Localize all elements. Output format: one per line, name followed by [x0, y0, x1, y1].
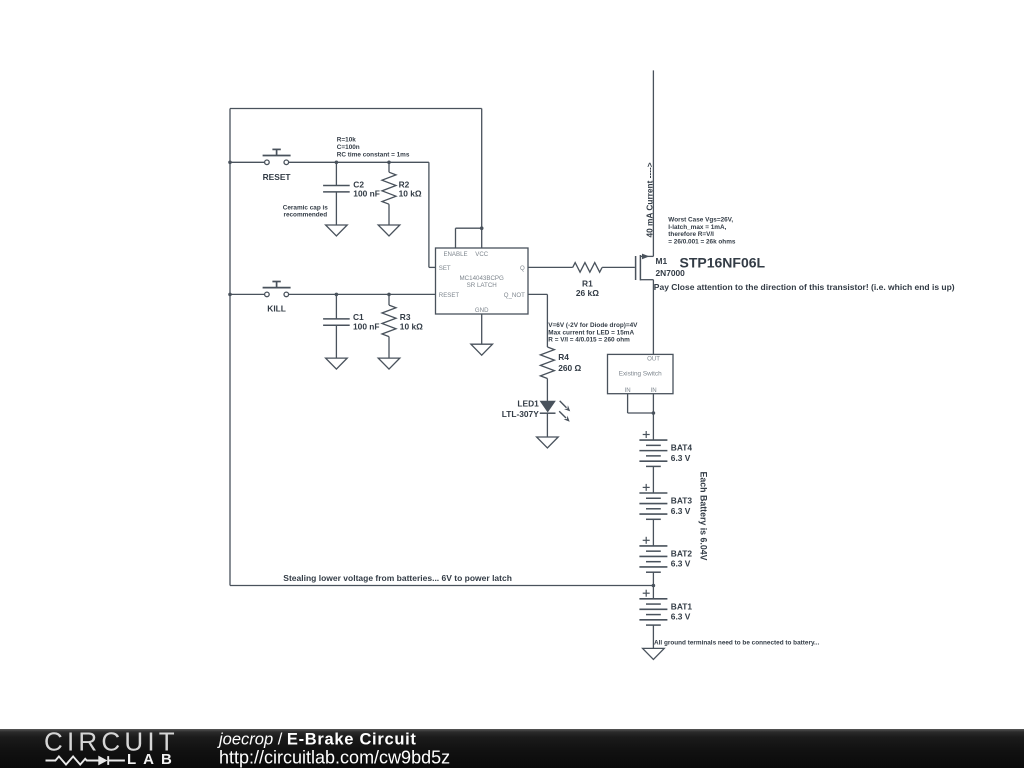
wire R2 to ground [388, 204, 390, 225]
node junction left edge / KILL [228, 293, 232, 297]
resistor R3 [382, 305, 396, 337]
wire drain up [652, 70, 654, 256]
wire RESET switch to SET bend [289, 161, 429, 163]
svg-text:Q_NOT: Q_NOT [504, 292, 525, 299]
node junction at C2 [335, 161, 339, 165]
wire LED1 to ground [546, 413, 548, 437]
switch KILL actuator stem [276, 282, 278, 288]
node junction at R2 [387, 161, 391, 165]
svg-text:BAT3: BAT3 [671, 496, 693, 506]
switch KILL actuator bar [263, 287, 291, 289]
svg-text:http://circuitlab.com/cw9bd5z: http://circuitlab.com/cw9bd5z [219, 747, 450, 767]
svg-text:STP16NF06L: STP16NF06L [680, 255, 766, 271]
wire bottom edge (stealing wire) [230, 585, 653, 587]
wire R3 to ground [388, 337, 390, 359]
battery BAT4 [639, 431, 667, 466]
wire bend down to SET [428, 162, 430, 267]
switch RESET contact circles [265, 160, 270, 165]
svg-text:MC14043BCPG: MC14043BCPG [460, 275, 505, 282]
wire IN left down [627, 394, 629, 413]
svg-text:SR LATCH: SR LATCH [467, 282, 497, 289]
op-amp U1 MC14043BCPG SR latch box [436, 248, 529, 314]
existing switch box [608, 354, 674, 393]
wire junction to BAT4 [652, 413, 654, 440]
resistor R4 [540, 347, 554, 379]
switch RESET actuator stem [276, 149, 278, 155]
svg-text:recommended: recommended [283, 212, 327, 219]
wire left edge to KILL switch [230, 293, 265, 295]
svg-text:Worst Case Vgs=26V,: Worst Case Vgs=26V, [668, 217, 733, 224]
node junction at R3 [387, 293, 391, 297]
switch KILL contact circles [265, 292, 270, 297]
svg-text:BAT4: BAT4 [671, 443, 693, 453]
svg-text:Stealing lower voltage from ba: Stealing lower voltage from batteries...… [283, 573, 512, 583]
resistor R1 [573, 263, 602, 273]
battery BAT2 [639, 537, 667, 572]
node junction at C1 [335, 293, 339, 297]
svg-text:BAT1: BAT1 [671, 601, 693, 611]
wire BAT3 to BAT2 [652, 519, 654, 546]
svg-text:C=100n: C=100n [337, 144, 360, 151]
annotation RC values [337, 137, 410, 159]
svg-text:6.3 V: 6.3 V [671, 612, 691, 622]
wire to C2 top plate [335, 162, 337, 185]
wire R4 to LED1 [546, 379, 548, 402]
svg-text:6.3 V: 6.3 V [671, 559, 691, 569]
wire BAT2 to BAT1 through junction [652, 572, 654, 599]
svg-text:R1: R1 [582, 278, 593, 288]
wire BAT4 to BAT3 [652, 466, 654, 493]
svg-text:R4: R4 [558, 352, 569, 362]
wire right edge (VCC) [481, 109, 483, 249]
svg-text:RESET: RESET [439, 292, 460, 299]
svg-text:RESET: RESET [263, 172, 292, 182]
wire Q_NOT out [528, 293, 547, 295]
svg-text:Each Battery is 6.04V: Each Battery is 6.04V [699, 472, 709, 561]
transistor M1 gate bar [635, 256, 637, 280]
node junction stealing wire [652, 584, 656, 588]
LED LED1 cathode bar [540, 412, 556, 414]
svg-text:LAB: LAB [127, 751, 179, 768]
transistor M1 source segment [640, 279, 653, 281]
svg-text:Max current for LED = 15mA: Max current for LED = 15mA [548, 329, 634, 336]
svg-text:40 mA Current ---->: 40 mA Current ----> [644, 162, 654, 237]
svg-text:M1: M1 [656, 256, 668, 266]
svg-text:26 kΩ: 26 kΩ [576, 288, 599, 298]
svg-text:LED1: LED1 [517, 399, 539, 409]
svg-text:BAT2: BAT2 [671, 548, 693, 558]
wire C1 bottom to ground [335, 325, 337, 358]
wire BAT1 to ground [652, 625, 654, 648]
svg-text:6.3 V: 6.3 V [671, 453, 691, 463]
svg-text:10 kΩ: 10 kΩ [399, 189, 422, 199]
wire KILL switch to RESET pin [289, 293, 436, 295]
transistor M1 channel bar [639, 255, 641, 280]
node junction ENABLE/VCC [480, 226, 484, 230]
wire to R3 [388, 294, 390, 305]
LED LED1 emission arrow 2 [559, 411, 570, 422]
svg-text:GND: GND [475, 307, 489, 314]
wire left edge to RESET switch [230, 161, 265, 163]
wire to R2 [388, 162, 390, 172]
svg-text:SET: SET [439, 265, 451, 272]
svg-text:Q: Q [520, 265, 525, 272]
wire source down to switch box [652, 280, 654, 355]
wire GND pin down [481, 314, 483, 344]
svg-text:ENABLE: ENABLE [443, 251, 467, 258]
svg-text:V=6V (-2V for Diode drop)=4V: V=6V (-2V for Diode drop)=4V [548, 322, 638, 329]
wire into SET pin [429, 266, 436, 268]
wire left edge of supply loop [229, 109, 231, 586]
svg-text:Ceramic cap is: Ceramic cap is [283, 205, 329, 212]
LED LED1 triangle [541, 401, 555, 411]
svg-text:= 26/0.001 = 26k ohms: = 26/0.001 = 26k ohms [668, 238, 736, 245]
battery BAT3 [639, 484, 667, 519]
wire down to R4 [546, 294, 548, 347]
ground under C1 [326, 358, 348, 369]
ground main battery [643, 648, 665, 659]
ground under R3 [378, 358, 400, 369]
svg-text:VCC: VCC [475, 251, 488, 258]
svg-text:OUT: OUT [647, 355, 660, 362]
svg-text:R = V/I = 4/0.015 = 260 ohm: R = V/I = 4/0.015 = 260 ohm [548, 337, 630, 344]
logo resistor-diode symbol [46, 756, 125, 765]
svg-text:Existing Switch: Existing Switch [619, 371, 662, 378]
LED LED1 emission arrow 1 [560, 401, 571, 412]
transistor M1 drain segment [640, 255, 653, 257]
svg-text:IN: IN [625, 387, 631, 394]
annotation ceramic cap [283, 205, 329, 219]
wire to C1 top plate [335, 294, 337, 319]
svg-text:100 nF: 100 nF [353, 322, 380, 332]
ground under R2 [378, 225, 400, 236]
logo diode triangle [98, 756, 107, 766]
wire top edge of supply loop [230, 108, 482, 110]
ground under U1 [471, 344, 493, 355]
ground under C2 [326, 225, 348, 236]
svg-text:IN: IN [651, 387, 657, 394]
wire Q to R1 [528, 266, 573, 268]
wire IN right down [652, 394, 654, 413]
wire C2 bottom to ground [335, 192, 337, 225]
battery BAT1 [639, 590, 667, 625]
svg-text:10 kΩ: 10 kΩ [400, 322, 423, 332]
svg-text:6.3 V: 6.3 V [671, 506, 691, 516]
svg-text:R=10k: R=10k [337, 137, 356, 144]
switch KILL actuator top [272, 281, 280, 283]
svg-text:RC time constant = 1ms: RC time constant = 1ms [337, 151, 410, 158]
svg-text:LTL-307Y: LTL-307Y [502, 409, 539, 419]
svg-text:100 nF: 100 nF [353, 189, 380, 199]
wire R1 to gate [602, 266, 635, 268]
switch RESET actuator top [272, 148, 280, 150]
capacitor C1 [323, 318, 350, 320]
svg-text:therefore R=V/I: therefore R=V/I [668, 231, 714, 238]
wire IN left bend [628, 412, 654, 414]
svg-text:260 Ω: 260 Ω [558, 363, 581, 373]
switch RESET actuator bar [263, 155, 291, 157]
annotation worst case [668, 217, 736, 246]
resistor R2 [382, 172, 396, 204]
annotation LED resistor calc [548, 322, 638, 344]
svg-text:joecrop / E-Brake Circuit: joecrop / E-Brake Circuit [217, 730, 417, 748]
node junction under switch box [652, 411, 656, 415]
wire ENABLE bend [455, 228, 457, 248]
svg-text:All ground terminals need to b: All ground terminals need to be connecte… [654, 640, 820, 647]
transistor M1 arrow [642, 254, 649, 260]
svg-text:Pay Close attention to the dir: Pay Close attention to the direction of … [654, 282, 955, 292]
node junction left edge / RESET [228, 161, 232, 165]
svg-text:KILL: KILL [267, 304, 286, 314]
ground under LED1 [537, 437, 559, 448]
capacitor C2 [323, 185, 350, 187]
svg-text:I-latch_max = 1mA,: I-latch_max = 1mA, [668, 224, 726, 231]
